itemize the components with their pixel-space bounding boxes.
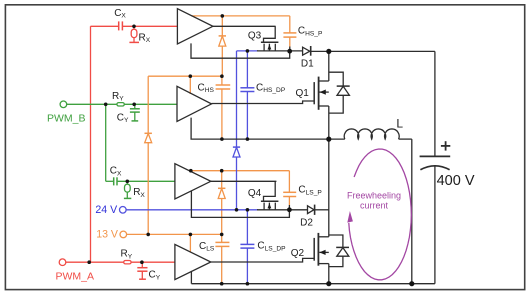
diode D1 [303,46,311,56]
op-amp U2 (HS gate driver) [177,86,212,121]
wire U2 ground to phase rail [191,118,329,140]
wire U1 top rail [191,15,290,17]
capacitor CX (green) [114,177,117,185]
node 24V diode junction [235,208,239,212]
wire U4 output to Q2 gate [211,258,314,262]
capacitor CLS_DP [240,210,254,284]
diode HS charge pump [219,16,226,76]
diode D2 [308,205,315,215]
node phase / inductor [326,137,331,142]
node CLS_DP ground [246,282,250,286]
node U3 rail start [189,169,193,173]
wire bottom ground rail [191,283,435,285]
capacitor 400V bus [420,141,451,284]
transistor Q2 [314,139,349,284]
wire 24V rail [126,209,258,211]
capacitor CLS_P [283,171,296,205]
terminal PWM_A [59,259,66,266]
node Q3 CHS_DP tap [246,49,250,53]
wire riser to CX [106,180,114,182]
wire U3 output rail [211,180,277,182]
wire D2 to phase leg [315,209,329,211]
svg-text:PWM_A: PWM_A [56,271,95,283]
wire U1 output rail [213,25,276,27]
diode chain left (13V to HS aux rail) [145,76,152,234]
node RX-A junction [132,25,136,29]
terminal PWM_B [60,101,67,108]
wire U1 ground return [191,43,290,58]
resistor RY (top) [117,103,124,106]
label freewheeling current [347,190,401,210]
capacitor CX (top) [119,21,123,30]
node CLS_P / D2 anode [287,207,292,212]
svg-text:24 V: 24 V [95,204,118,216]
svg-text:current: current [360,200,389,210]
wire U4 power stub [189,234,191,252]
node Q2 source / ground [326,281,331,286]
wire DC bus right drop [434,51,436,156]
node CLS ground [220,282,224,286]
svg-text:Q2: Q2 [291,248,305,259]
svg-text:Q1: Q1 [296,88,310,99]
capacitor CY (bottom) [137,262,147,279]
node U3 rail diode tap [220,169,224,173]
wire Q4 source node to D2 [257,209,308,211]
wire RY to buffer U4 input [131,261,175,263]
wire HS aux rail [148,75,222,77]
svg-text:L: L [396,116,403,130]
wire CX to buffer U1 input [123,25,178,27]
node CY-A junction [140,260,144,264]
diode bootstrap (24V to Q3 node) [233,51,240,210]
wire top red to CX [91,25,120,27]
wire top DC bus rail [311,50,435,52]
node 13V U4 stub junction [189,233,193,237]
op-amp U3 (LS charge stage) [175,164,211,199]
svg-text:13 V: 13 V [96,228,119,240]
wire load right drop [411,139,413,284]
wire PWM_B to RY [67,103,117,105]
svg-text:Q3: Q3 [248,31,262,42]
capacitor CY (top) [130,104,140,121]
svg-text:400 V: 400 V [437,173,475,189]
op-amp U1 (top driver stage) [177,9,213,44]
terminal 13V [120,231,127,238]
wire U2 power stub [189,76,191,94]
capacitor CHS_P [283,16,296,47]
node phase CHS tap [220,137,224,141]
wire U3 ground return [191,191,289,218]
capacitor CHS [216,76,231,139]
transistor Q3 [261,26,279,51]
resistor RY (bottom) [124,261,131,264]
freewheeling current loop [349,149,412,280]
wire PWM_A to RY [66,261,124,263]
svg-text:Freewheeling: Freewheeling [347,190,401,200]
op-amp U4 (LS gate driver) [175,244,211,279]
wire U3 top rail [191,170,290,172]
resistor RX (top) [129,26,139,42]
resistor RX (green) [124,181,131,198]
node 13V CLS junction [220,233,224,237]
node CY-B junction [132,103,136,107]
node Q1 drain / bus [326,49,331,54]
wire Q3 source node to D1 [257,50,303,52]
wire U4 ground stub [190,271,192,284]
capacitor CLS [215,234,229,283]
wire CX to buffer U3 input [117,180,175,182]
node HS aux rail U2 stub [189,74,193,78]
svg-text:D1: D1 [301,58,314,69]
wire 13V rail [127,233,222,235]
wire U2 output to Q1 gate [212,101,314,104]
node HS aux rail CHS [220,74,224,78]
node U1 rail diode tap [221,14,225,18]
transistor Q4 [261,181,279,210]
node PWM_A riser junction [87,260,91,264]
wire CLS_P black lead [288,205,290,210]
node CHS_P / D1 anode [287,49,292,54]
svg-text:Q4: Q4 [248,188,262,199]
wire green riser [105,104,107,181]
node RX-B junction [126,180,130,184]
node 24V CLS_DP junction [246,208,250,212]
svg-text:PWM_B: PWM_B [47,113,86,125]
terminal 24V [120,207,127,214]
wire red riser PWM_A to top network [90,26,92,262]
inductor L [329,129,412,139]
wire CHS_P black lead [289,47,291,52]
node phase CHS_DP tap [246,137,250,141]
node load return / ground [409,281,414,286]
node PWM_B riser junction [104,103,108,107]
transistor Q1 [314,51,350,139]
wire blue top link [237,50,259,52]
wire RY to buffer U2 input [124,103,177,105]
node 13V diode junction [146,233,150,237]
diode LS charge pump [218,171,225,235]
svg-text:D2: D2 [300,218,313,229]
capacitor CHS_DP [240,51,254,139]
